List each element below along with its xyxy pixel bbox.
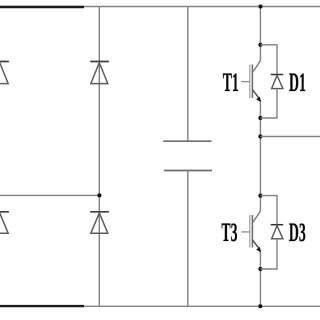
node T3 emitter junction — [258, 267, 262, 271]
diode D3 — [271, 225, 284, 239]
wire inverter leg upper segment — [259, 7, 261, 61]
wire inverter leg middle segment — [259, 100, 261, 211]
wire phase output to right edge — [260, 136, 320, 138]
svg-text:T3: T3 — [221, 217, 237, 247]
svg-text:T1: T1 — [223, 67, 239, 97]
wire top DC bus (thin) — [0, 6, 320, 8]
node rectifier midpoint junction — [97, 193, 101, 197]
node phase output junction — [258, 134, 262, 138]
node T1 collector junction — [258, 43, 262, 47]
svg-text:D3: D3 — [289, 217, 306, 247]
wire top DC bus thick left segment — [0, 6, 84, 8]
svg-text:D1: D1 — [289, 67, 306, 97]
wire capacitor bottom lead — [187, 171, 189, 307]
wire D1 branch bottom — [260, 89, 277, 118]
diode top-left (cropped at image edge) — [0, 62, 9, 84]
transistor T3 (IGBT) — [241, 211, 261, 252]
diode bottom-middle — [90, 212, 109, 234]
wire bottom DC bus thick left segment — [0, 305, 84, 307]
wire bottom DC bus (thin) — [0, 305, 320, 307]
node top bus junction — [259, 5, 263, 9]
wire D3 branch bottom — [260, 239, 277, 269]
transistor T1 (IGBT) — [241, 61, 261, 103]
node bottom bus junction — [258, 304, 262, 308]
diode top-middle — [90, 62, 109, 84]
wire D3 branch — [260, 196, 277, 225]
node T1 emitter junction — [258, 116, 262, 120]
node T3 collector junction — [258, 194, 262, 198]
wire AC input line — [0, 194, 99, 196]
wire capacitor top lead — [187, 7, 189, 142]
diode D1 — [271, 75, 284, 89]
wire rectifier leg vertical — [98, 7, 100, 307]
capacitor DC link — [163, 141, 212, 170]
diode bottom-left (cropped at image edge) — [0, 212, 9, 234]
wire inverter leg lower segment — [259, 250, 261, 306]
wire D1 branch — [260, 45, 277, 75]
